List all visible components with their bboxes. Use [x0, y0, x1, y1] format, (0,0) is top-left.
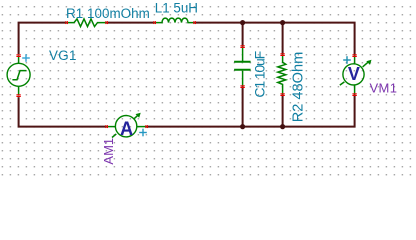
voltage source VG1 body [7, 56, 30, 96]
label VM1 [370, 81, 398, 96]
wire R2 branch bottom [282, 95, 284, 127]
wire C1 branch top [242, 23, 244, 47]
svg-text:L1 5uH: L1 5uH [155, 0, 198, 15]
pin AM1 left [105, 125, 108, 128]
label R1 value [66, 6, 150, 21]
junction top C1 [240, 20, 245, 25]
svg-text:VM1: VM1 [370, 81, 398, 96]
pin AM1 right [145, 125, 148, 128]
wire R2 branch top [282, 23, 284, 55]
svg-text:C1 10uF: C1 10uF [251, 51, 267, 97]
voltmeter letter V [348, 64, 360, 84]
VM1 plus sign [343, 56, 351, 64]
capacitor C1 [234, 47, 251, 87]
label L1 value [155, 0, 198, 15]
wire top-left loop: VG1 top to R1 [19, 23, 67, 54]
wire AM1 left pin to bottom-left corner up to VG1 bottom [19, 97, 107, 127]
svg-text:R1 100mOhm: R1 100mOhm [66, 6, 150, 21]
label C1 value [251, 51, 267, 97]
AM1 plus sign [139, 129, 147, 137]
svg-text:VG1: VG1 [49, 48, 77, 63]
ammeter letter A [120, 119, 133, 140]
pin VG1 top [16, 54, 20, 57]
junction bottom R2 [280, 124, 285, 129]
pin R1 left [65, 21, 68, 24]
pin C1 bottom [240, 85, 244, 88]
wire C1 branch bottom [242, 87, 244, 127]
resistor R1 [67, 19, 107, 27]
pin VG1 bottom [16, 94, 20, 97]
label R2 value [291, 52, 307, 123]
pin R2 top [280, 53, 284, 56]
pin L1 left [153, 21, 156, 24]
pin L1 right [193, 21, 196, 24]
pin R1 right [105, 21, 108, 24]
junction bottom C1 [240, 124, 245, 129]
VG1 plus sign [22, 54, 30, 62]
inductor L1 [155, 18, 195, 23]
label AM1 [101, 138, 116, 165]
pin C1 top [240, 45, 244, 48]
label VG1 [49, 48, 77, 63]
wire L1 to top-right corner and down to VM1 [195, 23, 355, 56]
wire R1 to L1 [107, 22, 155, 24]
junction top R2 [280, 20, 285, 25]
ammeter AM1 body [107, 113, 147, 138]
wire VM1 bottom to bottom-right corner to AM1 right pin [147, 95, 355, 127]
pin VM1 bottom [352, 93, 356, 96]
svg-text:V: V [348, 64, 360, 84]
svg-text:A: A [120, 119, 133, 140]
svg-text:AM1: AM1 [101, 138, 116, 165]
pin R2 bottom [280, 93, 284, 96]
resistor R2 [278, 55, 286, 95]
pin VM1 top [352, 54, 356, 57]
svg-text:R2 48Ohm: R2 48Ohm [291, 52, 307, 123]
voltmeter VM1 body [340, 56, 372, 95]
